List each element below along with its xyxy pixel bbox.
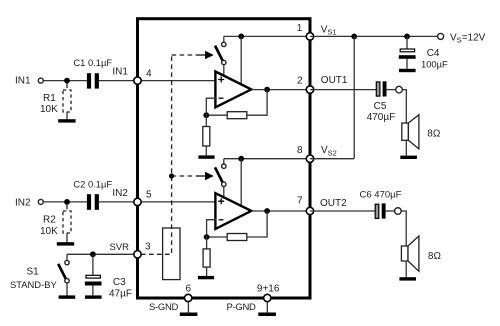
- svg-text:OUT2: OUT2: [320, 198, 347, 209]
- svg-text:8Ω: 8Ω: [428, 251, 442, 262]
- ground U1: [198, 155, 214, 158]
- op-amp U2: [215, 193, 251, 229]
- pin 9+16 P-GND: [264, 294, 271, 301]
- ground R2: [57, 242, 74, 245]
- svg-text:S1: S1: [27, 267, 40, 278]
- svg-text:1: 1: [297, 23, 303, 34]
- node junction SVR/C3: [90, 251, 96, 257]
- terminal IN2: [38, 199, 43, 204]
- wire U1 output to pin 2: [251, 89, 310, 91]
- svg-text:2: 2: [297, 75, 303, 86]
- pin 8 VS2: [306, 155, 313, 162]
- op-amp U1: [215, 72, 251, 108]
- svg-text:STAND-BY: STAND-BY: [10, 279, 57, 290]
- resistor feedback U1: [227, 112, 247, 119]
- svg-text:IN1: IN1: [15, 75, 31, 86]
- capacitor C6 470uF: [375, 204, 379, 218]
- wire VS1 rail inside IC (switch to pin 1): [224, 35, 310, 37]
- ground C4: [399, 69, 416, 72]
- capacitor C3 47uF: [92, 254, 94, 275]
- wire resistor to inverting input U1: [206, 114, 227, 116]
- svg-text:10K: 10K: [40, 104, 58, 115]
- terminal IN1: [38, 78, 43, 83]
- svg-text:7: 7: [297, 195, 303, 206]
- svg-text:R1: R1: [43, 93, 56, 104]
- speaker LS2: [401, 246, 408, 261]
- dashed junction node: [169, 173, 174, 178]
- wire supply drop to op-amp U1: [240, 36, 242, 87]
- wire IN1 input to C1: [43, 80, 87, 82]
- pin 6 S-GND: [185, 294, 192, 301]
- terminal OUT1: [396, 86, 403, 93]
- wire pin 5 to op-amp U2 + input: [138, 201, 217, 203]
- mute switch SW1: [222, 42, 226, 46]
- node junction IN1/R1: [64, 78, 70, 84]
- node inverting input U2: [204, 234, 210, 240]
- ground speaker 1: [400, 156, 417, 159]
- svg-text:IN1: IN1: [112, 66, 128, 77]
- svg-text:C2 0.1µF: C2 0.1µF: [73, 179, 112, 190]
- ground pin 9+16: [258, 313, 276, 317]
- wire SVR line to pin 3: [67, 253, 138, 255]
- svg-text:10K: 10K: [40, 226, 58, 237]
- pin 7 OUT2: [306, 207, 313, 214]
- svg-text:4: 4: [146, 69, 152, 80]
- svg-text:C5: C5: [374, 101, 387, 112]
- wire VS1 to VS2: [353, 36, 355, 158]
- pin 5 IN2: [134, 198, 141, 205]
- internal stand-by block: [163, 228, 180, 280]
- IC boundary TDA chip: [138, 19, 311, 298]
- pin 1 VS1: [306, 33, 313, 40]
- ground U2: [198, 276, 214, 279]
- resistor R1 (dashed, optional): [66, 83, 68, 90]
- wire pin 7 to C6: [310, 210, 375, 212]
- node C4 tap: [404, 34, 410, 40]
- dashed arrow to switch 2: [172, 175, 197, 177]
- node junction IN2/R2: [64, 199, 70, 205]
- wire to speaker 2: [401, 211, 406, 247]
- svg-text:SVR: SVR: [110, 242, 130, 253]
- svg-text:47µF: 47µF: [109, 289, 132, 300]
- wire to speaker 1: [402, 90, 406, 124]
- svg-text:OUT1: OUT1: [321, 75, 348, 86]
- svg-text:3: 3: [145, 241, 151, 252]
- svg-text:C6 470µF: C6 470µF: [360, 190, 402, 201]
- terminal OUT2: [395, 208, 402, 215]
- resistor feedback U2: [227, 234, 247, 241]
- svg-text:5: 5: [146, 190, 152, 201]
- wire U2 output to pin 7: [251, 210, 310, 212]
- wire C2 to pin 5: [99, 201, 138, 203]
- node VS1/VS2 tie: [351, 34, 357, 40]
- svg-text:C1 0.1µF: C1 0.1µF: [73, 57, 112, 68]
- wire resistor to inverting input U2: [207, 236, 228, 238]
- pin 4 IN1: [134, 77, 141, 84]
- wire feedback loop U2: [247, 211, 267, 237]
- svg-text:S-GND: S-GND: [149, 302, 179, 313]
- node U2 output: [264, 208, 270, 214]
- dashed control line vertical: [171, 55, 173, 253]
- resistor R2 (dashed, optional): [66, 205, 68, 211]
- mute switch SW2: [222, 164, 226, 168]
- svg-text:470µF: 470µF: [367, 112, 396, 123]
- pin 2 OUT1: [306, 86, 313, 93]
- ground pin 6: [180, 313, 198, 317]
- capacitor C2: [87, 194, 91, 210]
- node U1 output: [264, 87, 270, 93]
- svg-text:8Ω: 8Ω: [427, 129, 441, 140]
- wire pin 8 to VS tie: [310, 158, 354, 160]
- capacitor C1: [87, 73, 91, 88]
- wire supply drop to op-amp U2: [240, 159, 242, 208]
- svg-text:6: 6: [186, 284, 192, 295]
- wire VS1 to supply terminal: [310, 35, 438, 37]
- wire VS2 rail inside IC (switch to pin 8): [224, 158, 310, 160]
- wire pin 2 to C5: [310, 89, 376, 91]
- svg-text:R2: R2: [43, 215, 56, 226]
- ground speaker 2: [399, 277, 416, 280]
- switch S1 STAND-BY: [66, 254, 68, 260]
- svg-text:P-GND: P-GND: [227, 302, 257, 313]
- capacitor C5 470uF: [376, 82, 380, 96]
- node inverting input U1: [203, 112, 209, 118]
- resistor to ground U2: [206, 237, 208, 249]
- pin 3 SVR: [134, 251, 141, 258]
- svg-text:IN2: IN2: [112, 188, 128, 199]
- svg-text:C3: C3: [113, 277, 126, 288]
- resistor to ground U1: [205, 115, 207, 126]
- node VS1 drop: [238, 34, 244, 40]
- svg-text:VS=12V: VS=12V: [450, 32, 486, 44]
- svg-text:IN2: IN2: [15, 197, 31, 208]
- wire IN2 input to C2: [43, 201, 87, 203]
- svg-text:100µF: 100µF: [421, 58, 448, 69]
- wire C1 to pin 4: [99, 80, 138, 82]
- speaker LS1: [402, 123, 409, 140]
- svg-text:8: 8: [297, 145, 303, 156]
- ground R1: [58, 119, 75, 122]
- terminal VS supply: [438, 33, 444, 39]
- capacitor C4 100uF: [406, 36, 408, 48]
- node VS2 drop: [238, 156, 244, 162]
- dashed arrow to switch 1: [172, 54, 197, 56]
- wire pin 4 to op-amp U1 + input: [138, 80, 217, 82]
- ground S1: [59, 295, 76, 298]
- svg-text:9+16: 9+16: [257, 284, 280, 295]
- wire feedback loop U1: [247, 90, 267, 116]
- dashed net from SVR pin 3: [141, 253, 172, 255]
